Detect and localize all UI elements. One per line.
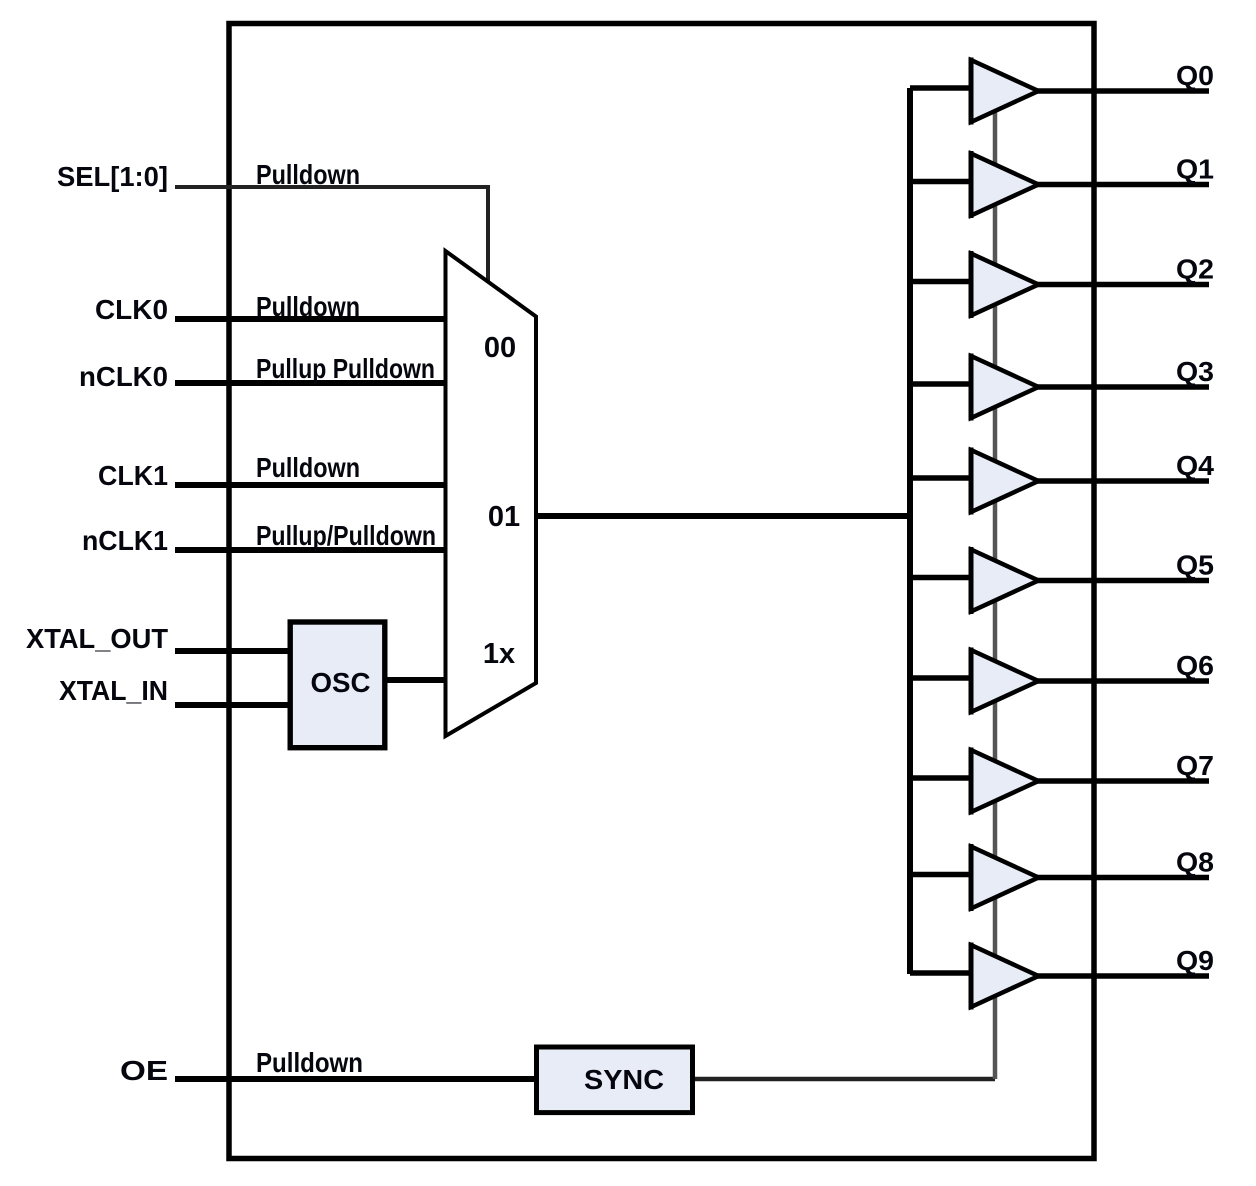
svg-text:Q1: Q1 <box>1176 154 1214 185</box>
svg-text:Q9: Q9 <box>1176 945 1214 976</box>
buffer U2 (output Q2 driver) <box>971 254 1039 316</box>
wire mux output to buffer bus <box>536 513 913 519</box>
buffer U7 (output Q7 driver) <box>971 750 1039 812</box>
svg-text:Q3: Q3 <box>1176 356 1214 387</box>
buffer U6 (output Q6 driver) <box>971 650 1039 712</box>
wire buffer 2 input stub <box>910 279 973 285</box>
buffer U3 (output Q3 driver) <box>971 356 1039 418</box>
wire SYNC output horizontal <box>695 1077 995 1082</box>
svg-text:Q2: Q2 <box>1176 254 1214 285</box>
buffer U8 (output Q8 driver) <box>971 847 1039 909</box>
wire OSC output to mux 1x input <box>385 677 449 683</box>
wire SEL[1:0] to mux select <box>175 187 488 284</box>
wire buffer 3 input stub <box>910 381 973 387</box>
wire buffer 8 input stub <box>910 872 973 878</box>
wire Q7 output <box>1037 778 1210 784</box>
svg-text:Pulldown: Pulldown <box>256 452 360 483</box>
buffer U4 (output Q4 driver) <box>971 450 1039 512</box>
wire SYNC enable vertical to buffers <box>993 100 998 1079</box>
buffer U1 (output Q1 driver) <box>971 154 1039 216</box>
wire Q1 output <box>1037 182 1210 188</box>
wire OE input to SYNC <box>175 1076 539 1082</box>
svg-text:SEL[1:0]: SEL[1:0] <box>57 161 168 192</box>
svg-text:Pulldown: Pulldown <box>256 1047 363 1078</box>
wire CLK1 input <box>175 482 447 488</box>
wire CLK0 input <box>175 316 447 322</box>
wire nCLK1 input <box>175 547 447 553</box>
wire Q5 output <box>1037 578 1210 584</box>
svg-text:Pullup/Pulldown: Pullup/Pulldown <box>256 520 436 551</box>
oscillator OSC <box>290 622 385 748</box>
svg-text:Q8: Q8 <box>1176 847 1214 878</box>
svg-text:Pulldown: Pulldown <box>256 291 360 322</box>
wire buffer 1 input stub <box>910 179 973 185</box>
wire buffer 0 input stub <box>910 85 973 91</box>
svg-text:Pulldown: Pulldown <box>256 159 360 190</box>
svg-text:00: 00 <box>484 332 516 364</box>
svg-text:Pullup Pulldown: Pullup Pulldown <box>256 353 435 384</box>
svg-text:CLK1: CLK1 <box>98 460 168 491</box>
buffer U5 (output Q5 driver) <box>971 550 1039 612</box>
svg-text:nCLK1: nCLK1 <box>82 525 168 556</box>
svg-text:OE: OE <box>120 1055 168 1086</box>
wire Q2 output <box>1037 282 1210 288</box>
svg-text:OSC: OSC <box>311 667 371 698</box>
svg-text:XTAL_IN: XTAL_IN <box>59 675 168 706</box>
wire XTAL_IN input <box>175 702 292 708</box>
svg-text:XTAL_OUT: XTAL_OUT <box>26 623 168 654</box>
wire buffer 9 input stub <box>910 970 973 976</box>
wire nCLK0 input <box>175 380 447 386</box>
wire buffer input bus vertical <box>907 88 913 974</box>
wire Q8 output <box>1037 875 1210 881</box>
wire buffer 5 input stub <box>910 575 973 581</box>
wire Q6 output <box>1037 678 1210 684</box>
wire Q3 output <box>1037 384 1210 390</box>
wire XTAL_OUT input <box>175 648 292 654</box>
wire buffer 4 input stub <box>910 475 973 481</box>
svg-text:Q7: Q7 <box>1176 750 1214 781</box>
svg-text:CLK0: CLK0 <box>95 294 168 325</box>
svg-text:1x: 1x <box>483 638 515 670</box>
buffer U9 (output Q9 driver) <box>971 945 1039 1007</box>
svg-text:nCLK0: nCLK0 <box>79 361 168 392</box>
wire Q4 output <box>1037 478 1210 484</box>
wire buffer 6 input stub <box>910 675 973 681</box>
sync block SYNC <box>537 1047 693 1113</box>
svg-text:Q6: Q6 <box>1176 650 1214 681</box>
buffer U0 (output Q0 driver) <box>971 60 1039 122</box>
multiplexer MUX <box>446 251 537 736</box>
svg-text:Q4: Q4 <box>1176 450 1214 481</box>
svg-text:Q5: Q5 <box>1176 550 1214 581</box>
wire Q9 output <box>1037 973 1210 979</box>
chip boundary <box>229 24 1094 1159</box>
wire buffer 7 input stub <box>910 775 973 781</box>
svg-text:01: 01 <box>488 501 520 533</box>
wire Q0 output <box>1037 88 1210 94</box>
svg-text:Q0: Q0 <box>1176 60 1214 91</box>
svg-text:SYNC: SYNC <box>584 1064 664 1095</box>
